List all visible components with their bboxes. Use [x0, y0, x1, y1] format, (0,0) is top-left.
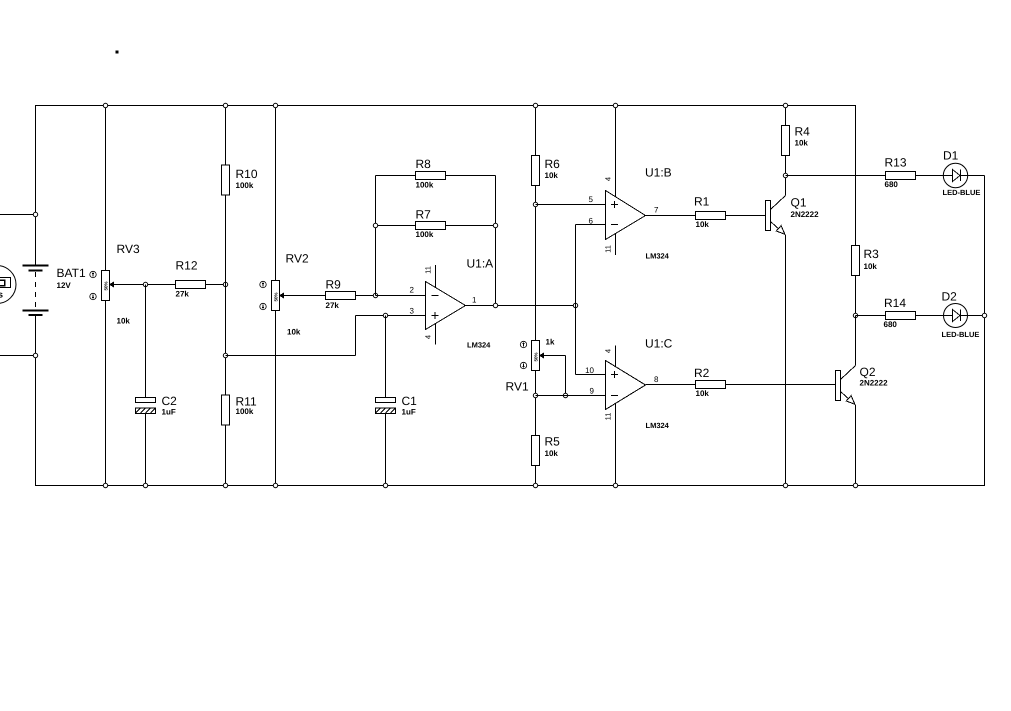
wire Q1 emitter down	[785, 235, 787, 486]
svg-text:RV1: RV1	[506, 380, 529, 394]
node junction D2/right rail	[982, 313, 986, 317]
resistor R4	[782, 126, 790, 156]
svg-text:1: 1	[472, 296, 477, 305]
node top rail RV3	[103, 103, 107, 107]
node left rail upper stub	[33, 212, 37, 216]
svg-text:10k: 10k	[287, 328, 301, 337]
node bottom rail C2	[143, 483, 147, 487]
node junction C1 top	[383, 313, 387, 317]
svg-text:U1:B: U1:B	[645, 166, 672, 180]
node top rail R6	[533, 103, 537, 107]
svg-text:1uF: 1uF	[402, 408, 416, 417]
svg-text:27k: 27k	[176, 290, 190, 299]
wire RV2 top lead	[275, 106, 277, 281]
value C1 1uF	[402, 408, 416, 417]
wire D2 to right rail	[968, 315, 985, 317]
svg-text:1uF: 1uF	[162, 408, 176, 417]
svg-text:BAT1: BAT1	[57, 266, 86, 280]
wire right rail vertical	[984, 176, 986, 486]
U1:B minus sign	[611, 224, 618, 226]
value R3 10k	[864, 262, 878, 271]
wire U1:C output	[646, 384, 696, 386]
node junction wiper/pin9	[563, 393, 567, 397]
U1:A minus sign	[432, 295, 439, 297]
wire U1:A output	[466, 305, 576, 307]
svg-text:R9: R9	[326, 278, 342, 292]
svg-text:12V: 12V	[57, 281, 72, 290]
svg-text:LM324: LM324	[467, 341, 491, 350]
svg-text:4: 4	[424, 335, 433, 339]
node junction R3/collector/R14	[853, 313, 857, 317]
label R2	[694, 366, 710, 380]
wire R7 right lead	[446, 225, 496, 227]
svg-text:LED-BLUE: LED-BLUE	[942, 330, 980, 339]
wire pin3 jog	[226, 316, 426, 356]
svg-text:10k: 10k	[545, 449, 559, 458]
value R4 10k	[795, 139, 809, 148]
wire R14 left lead	[856, 315, 886, 317]
label R13	[885, 156, 907, 170]
svg-text:R7: R7	[416, 208, 432, 222]
svg-text:2N2222: 2N2222	[791, 210, 820, 219]
value Q1 2N2222	[791, 210, 820, 219]
U1:C plus sign	[611, 371, 618, 378]
value 12V	[57, 281, 72, 290]
U1:B power pin top	[615, 106, 617, 198]
svg-text:10k: 10k	[696, 220, 710, 229]
wire C1 bottom lead	[385, 414, 387, 486]
wire pin5	[536, 204, 606, 206]
svg-text:11: 11	[604, 245, 613, 253]
svg-text:4: 4	[604, 349, 613, 353]
node bottom rail C1	[383, 483, 387, 487]
transistor Q1	[766, 196, 786, 236]
value Q2 2N2222	[860, 379, 889, 388]
capacitor C2	[136, 398, 156, 414]
wire U1:B output	[646, 215, 696, 217]
U1:C pin 4 label	[604, 349, 613, 353]
potentiometer RV2	[272, 281, 288, 311]
probe marker at left edge	[0, 266, 16, 304]
value C2 1uF	[162, 408, 176, 417]
label R4	[795, 125, 811, 139]
wire R11 bottom lead	[225, 425, 227, 486]
U1:C pin 11 label	[604, 413, 613, 421]
label R11	[236, 395, 257, 409]
label R10	[236, 167, 258, 181]
wire R3 top lead	[855, 106, 857, 246]
label R7	[416, 208, 432, 222]
node bottom rail R5	[533, 483, 537, 487]
wire R14 to D2	[916, 315, 944, 317]
svg-text:10k: 10k	[696, 389, 710, 398]
label RV3	[117, 242, 140, 256]
wire feedback right vertical	[495, 176, 497, 306]
svg-text:R12: R12	[176, 259, 198, 273]
wire RV3 wiper to R12	[118, 284, 176, 286]
svg-text:8: 8	[654, 375, 659, 384]
op-amp U1:A	[426, 282, 466, 330]
label R12	[176, 259, 198, 273]
svg-text:D1: D1	[943, 149, 959, 163]
node bottom rail RV3	[103, 483, 107, 487]
resistor R11	[222, 395, 230, 425]
label R14	[884, 296, 906, 310]
node bottom rail R11	[223, 483, 227, 487]
label U1:B	[645, 166, 672, 180]
svg-text:11: 11	[424, 266, 433, 274]
wire pin6-pin10 vertical	[575, 306, 577, 375]
svg-text:50%: 50%	[104, 281, 109, 290]
wire R8 right lead	[446, 175, 496, 177]
U1:B power pin bottom	[615, 234, 617, 255]
svg-text:100k: 100k	[236, 181, 254, 190]
U1:A plus sign	[432, 312, 439, 319]
transistor Q2	[836, 366, 856, 406]
U1:B pin 6 number	[589, 217, 594, 226]
wire Q2 collector up	[855, 316, 857, 366]
value R7 100k	[416, 230, 434, 239]
svg-text:R4: R4	[795, 125, 811, 139]
wire top power rail	[35, 105, 856, 107]
label U1:A	[467, 257, 494, 271]
resistor R8	[416, 172, 446, 180]
RV2 terminal arrow down	[260, 303, 266, 309]
svg-text:R6: R6	[545, 157, 561, 171]
U1:C pin 8 number	[654, 375, 659, 384]
node junction feedback left	[373, 293, 377, 297]
value R11 100k	[236, 407, 254, 416]
svg-text:680: 680	[884, 320, 898, 329]
wire R12 right lead	[206, 284, 226, 286]
wire R5 bottom lead	[535, 466, 537, 486]
svg-text:2N2222: 2N2222	[860, 379, 889, 388]
svg-text:1k: 1k	[546, 338, 555, 347]
label R5	[545, 435, 561, 449]
node top rail R4	[783, 103, 787, 107]
svg-text:5: 5	[589, 195, 594, 204]
resistor R1	[696, 212, 726, 220]
svg-text:U1:A: U1:A	[467, 257, 494, 271]
svg-text:LM324: LM324	[646, 421, 670, 430]
svg-text:3: 3	[410, 307, 415, 316]
svg-text:100k: 100k	[416, 181, 434, 190]
U1:A pin 4 label	[424, 335, 433, 339]
wire C2 top lead	[145, 285, 147, 398]
value U1:C LM324	[646, 421, 670, 430]
U1:A pin 1 number	[472, 296, 477, 305]
value RV1 1k	[546, 338, 555, 347]
svg-text:10k: 10k	[117, 317, 131, 326]
wire RV1 bottom lead	[535, 371, 537, 436]
resistor R10	[222, 165, 230, 195]
node bottom rail U1:C pin11	[613, 483, 617, 487]
svg-text:RV3: RV3	[117, 242, 140, 256]
svg-text:10k: 10k	[864, 262, 878, 271]
U1:B pin 7 number	[654, 206, 659, 215]
wire RV2 wiper to R9	[288, 295, 326, 297]
node bottom rail Q1 emitter	[783, 483, 787, 487]
capacitor C1	[376, 398, 396, 414]
svg-text:Q2: Q2	[860, 365, 876, 379]
resistor R13	[886, 172, 916, 180]
node top rail U1:B pin4	[613, 103, 617, 107]
wire D1 to right rail	[968, 175, 985, 177]
value R2 10k	[696, 389, 710, 398]
resistor R12	[176, 281, 206, 289]
node bottom rail RV2	[273, 483, 277, 487]
value R8 100k	[416, 181, 434, 190]
value RV2 10k	[287, 328, 301, 337]
U1:A pin 11 label	[424, 266, 433, 274]
wire R10 top lead	[225, 106, 227, 166]
wire divider middle	[225, 195, 227, 395]
U1:B plus sign	[611, 201, 618, 208]
resistor R6	[532, 156, 540, 186]
wire Q2 emitter down	[855, 405, 857, 486]
wire pin6 jog	[576, 225, 606, 306]
label R9	[326, 278, 342, 292]
svg-text:s: s	[0, 290, 3, 300]
wire Q1 collector up	[785, 176, 787, 196]
U1:B pin 4 label	[604, 177, 613, 181]
label C1	[402, 394, 418, 408]
U1:C pin 9 number	[590, 387, 595, 396]
label D1	[943, 149, 959, 163]
U1:C power pin top stub	[615, 346, 617, 368]
resistor R5	[532, 436, 540, 466]
value R6 10k	[545, 171, 559, 180]
node junction C2 top	[143, 282, 147, 286]
wire R1 to Q1 base	[726, 215, 766, 217]
wire R13 to D1	[916, 175, 944, 177]
svg-text:50%: 50%	[534, 352, 539, 361]
resistor R2	[696, 381, 726, 389]
value R13 680	[885, 180, 899, 189]
wire R9 to pin2	[356, 295, 426, 297]
svg-text:10k: 10k	[545, 171, 559, 180]
svg-text:9: 9	[590, 387, 595, 396]
label BAT1	[57, 266, 86, 280]
svg-text:100k: 100k	[236, 407, 254, 416]
wire U1:A pin2 input	[376, 295, 426, 297]
wire left stub upper	[0, 214, 36, 216]
U1:A power pin top	[435, 265, 437, 288]
value R1 10k	[696, 220, 710, 229]
RV2 terminal arrow up	[260, 281, 266, 287]
label R1	[694, 195, 710, 209]
LED D1	[943, 163, 967, 187]
label Q2	[860, 365, 876, 379]
svg-text:R1: R1	[694, 195, 710, 209]
wire R6 bottom to RV1	[535, 186, 537, 341]
node junction divider mid	[223, 353, 227, 357]
svg-text:R2: R2	[694, 366, 710, 380]
wire R7 left lead	[376, 225, 416, 227]
potentiometer RV1	[532, 341, 548, 371]
RV1 terminal arrow down	[520, 362, 526, 368]
svg-text:2: 2	[410, 286, 415, 295]
node junction output/feedback	[493, 303, 497, 307]
svg-text:LED-BLUE: LED-BLUE	[943, 188, 981, 197]
label U1:C	[645, 337, 673, 351]
U1:C power pin bottom	[615, 404, 617, 486]
svg-text:10k: 10k	[795, 139, 809, 148]
op-amp U1:C	[606, 361, 646, 410]
node junction R7 left	[373, 223, 377, 227]
svg-text:Q1: Q1	[791, 196, 807, 210]
label R6	[545, 157, 561, 171]
value D2 LED-BLUE	[942, 330, 980, 339]
value RV3 10k	[117, 317, 131, 326]
svg-text:R8: R8	[416, 157, 432, 171]
svg-text:6: 6	[589, 217, 594, 226]
value R10 100k	[236, 181, 254, 190]
svg-text:100k: 100k	[416, 230, 434, 239]
label Q1	[791, 196, 807, 210]
battery BAT1	[23, 266, 49, 316]
U1:A power pin bottom	[435, 323, 437, 345]
value R12 27k	[176, 290, 190, 299]
node left rail lower stub	[33, 353, 37, 357]
svg-text:R3: R3	[864, 247, 880, 261]
U1:C pin 10 number	[585, 366, 594, 375]
wire R13 left lead	[786, 175, 886, 177]
wire pin9	[536, 395, 606, 397]
node junction R4/collector/R13	[783, 173, 787, 177]
svg-text:4: 4	[604, 177, 613, 181]
wire feedback left vertical	[375, 176, 377, 296]
svg-text:RV2: RV2	[286, 252, 309, 266]
wire R3 bottom lead	[855, 276, 857, 316]
wire pin10	[576, 374, 606, 376]
wire RV2 bottom lead	[275, 311, 277, 486]
origin marker dot	[116, 51, 119, 54]
value D1 LED-BLUE	[943, 188, 981, 197]
label R8	[416, 157, 432, 171]
node top rail RV2	[273, 103, 277, 107]
svg-text:R13: R13	[885, 156, 907, 170]
svg-text:C2: C2	[162, 394, 178, 408]
wire bottom ground rail	[35, 485, 985, 487]
value R14 680	[884, 320, 898, 329]
node junction R7 right	[493, 223, 497, 227]
U1:B pin 11 label	[604, 245, 613, 253]
svg-text:27k: 27k	[326, 301, 340, 310]
node junction pin9 left	[533, 393, 537, 397]
wire R6 top lead	[535, 106, 537, 156]
svg-text:R14: R14	[884, 296, 906, 310]
svg-text:7: 7	[654, 206, 659, 215]
wire left rail vertical (battery branch)	[35, 106, 37, 486]
label C2	[162, 394, 178, 408]
node top rail R10	[223, 103, 227, 107]
node junction R12/divider	[223, 282, 227, 286]
value R9 27k	[326, 301, 340, 310]
U1:A pin 2 number	[410, 286, 415, 295]
op-amp U1:B	[606, 191, 646, 240]
wire R4 bottom lead	[785, 156, 787, 176]
svg-text:10: 10	[585, 366, 594, 375]
wire left stub lower	[0, 355, 36, 357]
wire R4 top lead	[785, 106, 787, 126]
svg-text:C1: C1	[402, 394, 418, 408]
wire C1 top lead	[385, 316, 387, 398]
LED D2	[944, 304, 968, 328]
node bottom rail Q2 emitter	[853, 483, 857, 487]
U1:C minus sign	[611, 395, 618, 397]
resistor R7	[416, 222, 446, 230]
svg-text:U1:C: U1:C	[645, 337, 673, 351]
wire R2 to Q2 base	[726, 384, 836, 386]
wire RV3 bottom lead	[105, 301, 107, 486]
node junction pin5	[533, 202, 537, 206]
value U1:A LM324	[467, 341, 491, 350]
RV3 terminal arrow down	[90, 293, 96, 299]
svg-text:R10: R10	[236, 167, 258, 181]
value U1:B LM324	[646, 252, 670, 261]
label RV2	[286, 252, 309, 266]
wire C2 bottom lead	[145, 414, 147, 486]
svg-text:680: 680	[885, 180, 899, 189]
svg-text:D2: D2	[942, 290, 958, 304]
node junction output to pin6/10	[573, 303, 577, 307]
RV3 terminal arrow up	[90, 271, 96, 277]
label D2	[942, 290, 958, 304]
U1:B pin 5 number	[589, 195, 594, 204]
svg-text:R5: R5	[545, 435, 561, 449]
U1:A pin 3 number	[410, 307, 415, 316]
wire RV1 wiper jog	[548, 356, 566, 396]
svg-text:LM324: LM324	[646, 252, 670, 261]
value R5 10k	[545, 449, 559, 458]
RV1 terminal arrow up	[520, 341, 526, 347]
wire RV3 top lead	[105, 106, 107, 271]
resistor R3	[852, 246, 860, 276]
label R3	[864, 247, 880, 261]
potentiometer RV3	[102, 271, 118, 301]
label RV1	[506, 380, 529, 394]
svg-text:11: 11	[604, 413, 613, 421]
resistor R14	[886, 312, 916, 320]
wire R8 left lead	[376, 175, 416, 177]
resistor R9	[326, 292, 356, 300]
svg-text:50%: 50%	[274, 292, 279, 301]
